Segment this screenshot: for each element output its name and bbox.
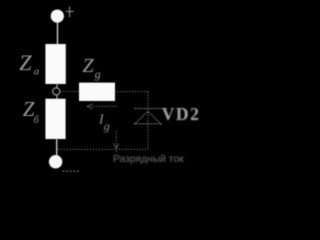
- svg-text:Разрядный ток: Разрядный ток: [113, 154, 184, 165]
- svg-text:Z: Z: [19, 50, 32, 75]
- terminal + (top positive terminal circle): [51, 10, 64, 23]
- label Z_a: [19, 50, 39, 78]
- svg-text:Z: Z: [83, 55, 95, 77]
- diode VD2: [135, 109, 162, 124]
- terminal - (bottom negative terminal circle): [49, 155, 62, 168]
- label I_d: [98, 113, 110, 133]
- wire node to Zd (dashed): [60, 91, 79, 93]
- svg-text:g: g: [104, 119, 110, 133]
- impedance Zd box (horizontal): [79, 83, 115, 101]
- svg-text:а: а: [34, 67, 39, 78]
- label Z_b: [23, 97, 40, 126]
- wire bottom return (dashed): [58, 148, 149, 150]
- svg-text:VD2: VD2: [162, 104, 201, 124]
- wire node to Zb: [56, 95, 58, 99]
- impedance Zb box: [45, 99, 65, 139]
- impedance Za box: [45, 44, 65, 84]
- wire Zd to diode branch (dashed): [115, 91, 148, 93]
- leader arrow from text to return wire: [114, 131, 119, 153]
- svg-text:g: g: [95, 67, 101, 81]
- wire Za to node: [56, 84, 58, 88]
- wire top terminal to Za: [57, 22, 59, 45]
- plus sign label: [66, 6, 74, 17]
- wire Zb to bottom terminal: [56, 139, 58, 156]
- node (junction ring): [53, 88, 60, 95]
- label Z_d: [83, 55, 101, 81]
- wire diode branch vertical (dashed): [147, 92, 149, 150]
- minus sign label: [63, 170, 81, 172]
- current arrow under Zd box: [87, 104, 117, 109]
